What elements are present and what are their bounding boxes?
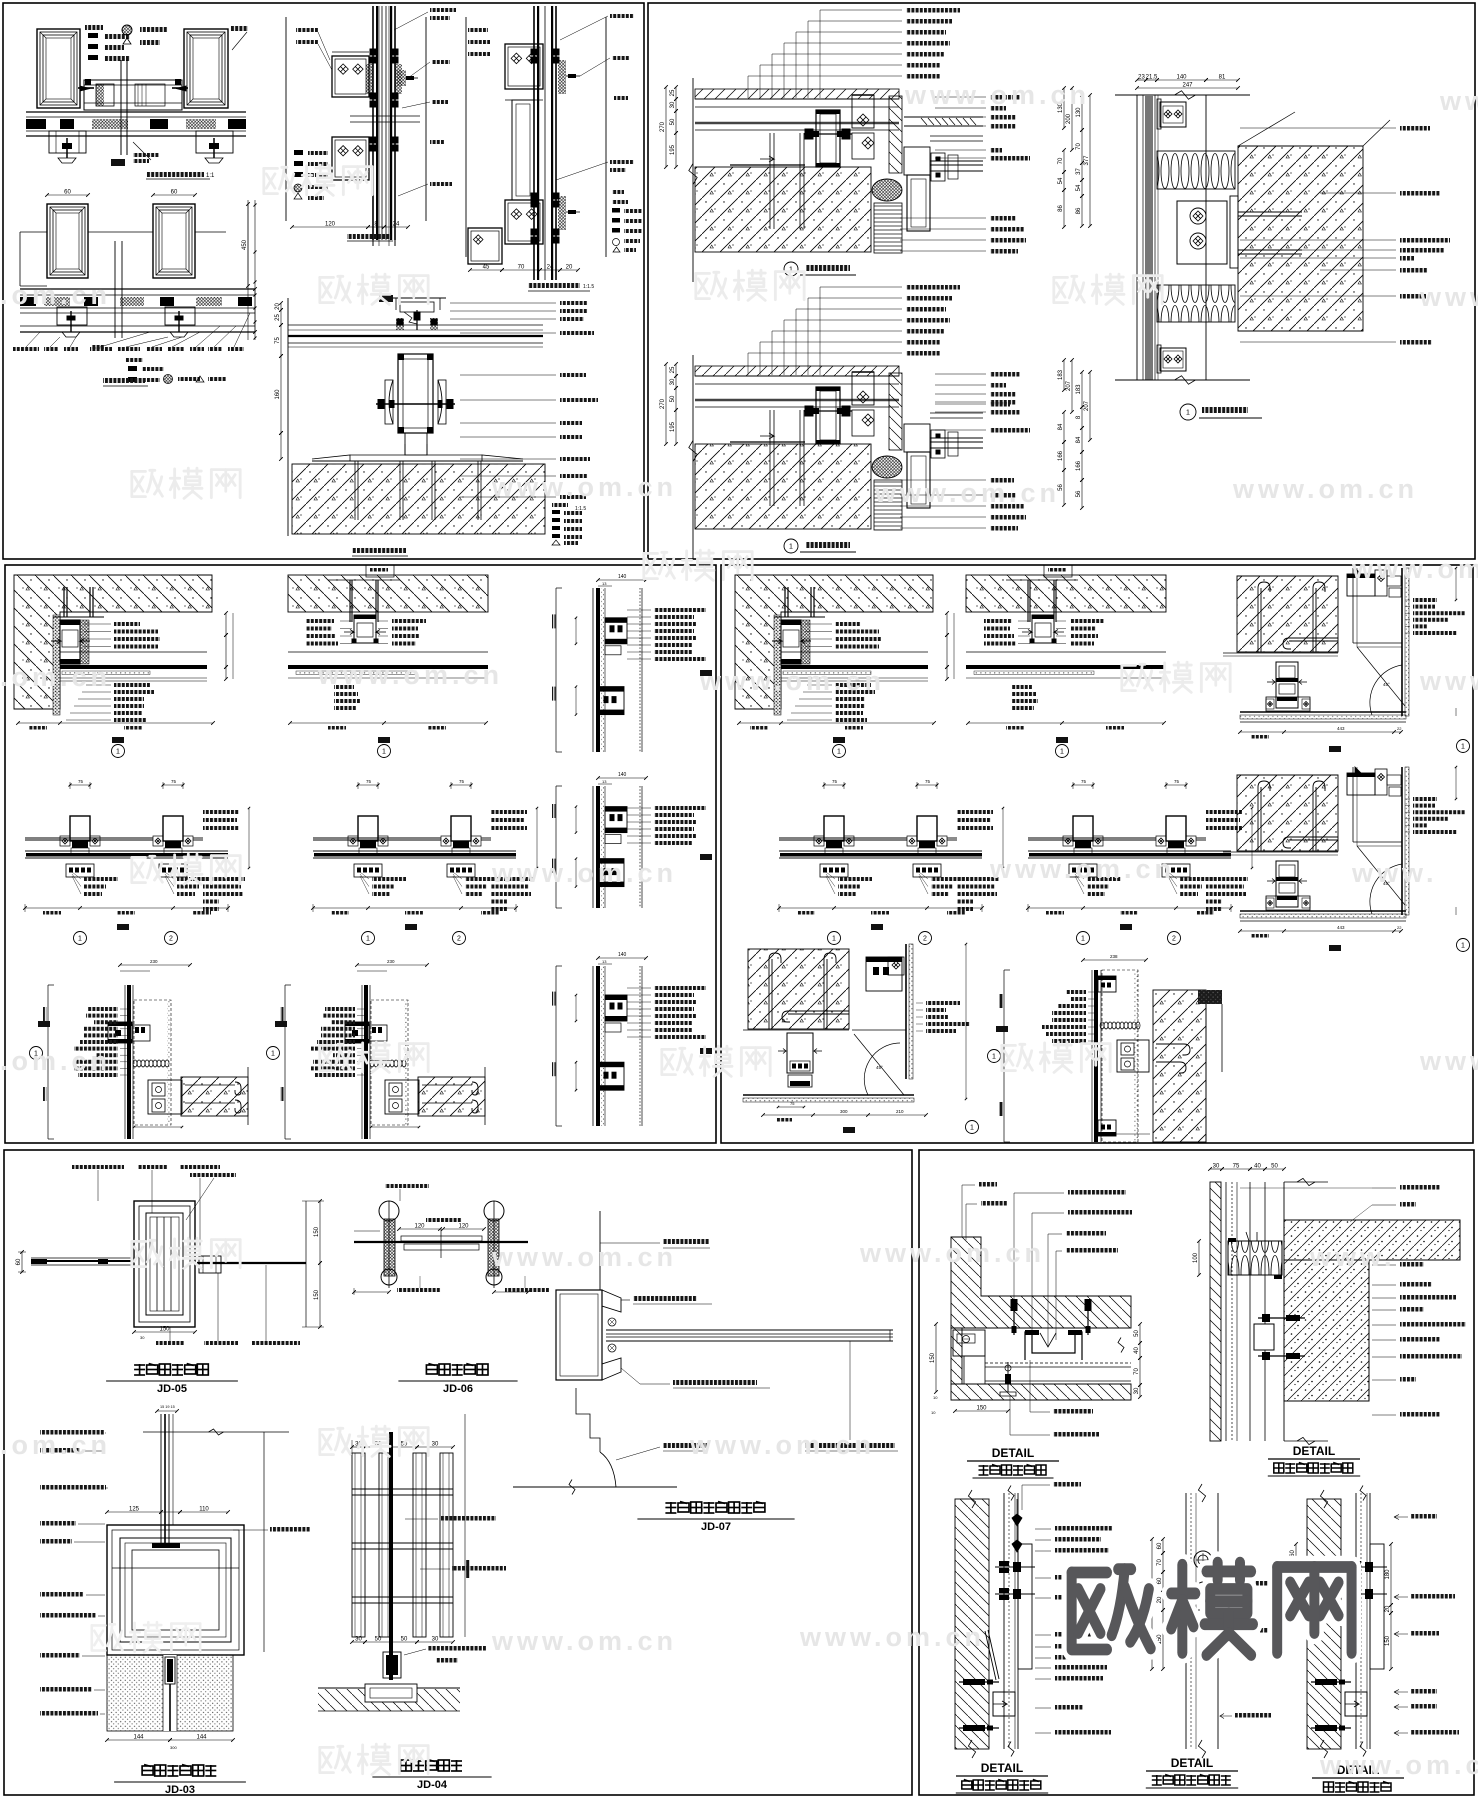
second bracket diamond: [852, 410, 874, 436]
panel border bottom-left sheet: [4, 1150, 912, 1795]
lower glass band with black seam: [313, 850, 516, 852]
stone clamp left BR-1: [953, 1330, 985, 1356]
svg-text:150: 150: [314, 1226, 320, 1237]
svg-text:1: 1: [789, 544, 793, 551]
break symbols BR-2: [1297, 1178, 1315, 1185]
upper cluster: [605, 618, 627, 644]
miter diagonal and arc: [1357, 846, 1405, 905]
left boundary line TL-E: [287, 298, 289, 536]
svg-text:50: 50: [375, 1637, 382, 1643]
mullion tube rect: [70, 816, 90, 841]
bottom bracket TR-3: [1160, 348, 1186, 371]
rail band of TL-B: [20, 288, 255, 290]
leader labels mid rows: [835, 622, 861, 626]
gasket cluster under mullion: [1075, 841, 1091, 848]
upper X-box TL-D: [505, 44, 543, 89]
dark stipple notch: [1198, 990, 1222, 1004]
pressure strip polygon JD-07: [602, 1290, 621, 1312]
left dims BR-1: [935, 1324, 937, 1392]
svg-text:140: 140: [618, 574, 627, 580]
bolt assembly window2 TL-B: [165, 307, 195, 325]
labels JD-07: [663, 1239, 709, 1244]
svg-text:50: 50: [1271, 1164, 1278, 1170]
right leader labels: [1413, 797, 1437, 801]
hatched ceiling slab wedge: [735, 575, 933, 709]
bottom glass checker band: [1240, 711, 1406, 713]
top sill assembly TL-E: [395, 298, 397, 310]
glass lines left right: [1028, 837, 1063, 839]
svg-text:30: 30: [1213, 1164, 1220, 1170]
svg-text:140: 140: [1176, 75, 1187, 81]
lower cluster dim: [575, 859, 577, 887]
right label JD-03: [270, 1527, 310, 1532]
anchor pins into concrete: [769, 410, 771, 506]
svg-text:166: 166: [1058, 450, 1064, 461]
vertical stone plate: [889, 373, 902, 450]
svg-text:www.om.cn: www.om.cn: [491, 1626, 677, 1656]
x-clip boxes: [1156, 836, 1166, 846]
door leaf line right JD-05: [197, 1262, 306, 1264]
svg-text:25: 25: [670, 89, 676, 96]
title JD-05: [134, 1364, 145, 1375]
svg-text:60: 60: [1290, 1550, 1296, 1557]
svg-text:84: 84: [1076, 436, 1082, 443]
frame opening dashed: [134, 1000, 171, 1125]
glass into frame JD-03: [160, 1525, 162, 1545]
wall return line: [247, 1067, 249, 1125]
small detail box top: [1044, 565, 1072, 577]
svg-text:60: 60: [171, 190, 178, 196]
svg-text:150: 150: [314, 1289, 320, 1300]
PVC + bolt right TL-D: [568, 74, 576, 78]
svg-text:1: 1: [116, 749, 120, 756]
side plates TL-E: [389, 380, 393, 424]
lower X-box TL-C: [332, 137, 369, 180]
leader labels mid rows: [114, 622, 140, 626]
small legend under TL-B: [125, 358, 143, 362]
anchor cluster upper: [108, 1022, 132, 1043]
stipple wall finish strip: [774, 615, 781, 715]
base tee TL-E: [405, 433, 427, 455]
lower glass band with black seam: [1028, 850, 1231, 852]
title circled number: [784, 262, 798, 276]
svg-text:22: 22: [1397, 925, 1402, 930]
bottom dim: [371, 1126, 419, 1128]
channel steel portal BR-1: [1025, 1332, 1082, 1360]
svg-text:75: 75: [925, 779, 931, 784]
svg-text:75: 75: [78, 779, 84, 784]
svg-text:www.om.cn: www.om.cn: [491, 472, 677, 502]
svg-text:75: 75: [459, 779, 465, 784]
bracket box: [1117, 1040, 1149, 1072]
frame box TL-D: [465, 17, 467, 257]
svg-text:70: 70: [518, 265, 525, 271]
svg-text:120: 120: [325, 222, 336, 228]
mullion arrows: [1267, 680, 1275, 685]
mullion plan 1 frame: [1073, 784, 1093, 786]
svg-text:183: 183: [1058, 369, 1064, 380]
panel border middle-left sheet: [5, 565, 716, 1143]
hook anchors in concrete: [235, 1082, 241, 1095]
bolt assembly below window1 TL-A: [49, 131, 86, 153]
assembly arrows: [51, 639, 61, 644]
svg-text:DETAIL: DETAIL: [992, 1446, 1034, 1460]
dashed joint BR-4: [1186, 1609, 1218, 1611]
svg-text:1: 1: [78, 936, 82, 943]
anchor bolts horizontal: [1311, 1681, 1351, 1683]
circled numbers: [1077, 932, 1090, 945]
label leader FC301 top right of TL-A: [232, 32, 247, 50]
svg-text:50: 50: [1134, 1330, 1140, 1337]
central mullion column TL-C: [372, 6, 374, 240]
bottom dim JD-03: [107, 1739, 170, 1741]
mullion plan 2 frame: [163, 784, 183, 786]
svg-text:443: 443: [1337, 925, 1345, 930]
mullion tube rect: [917, 816, 937, 841]
glass lines left right: [313, 837, 441, 839]
circled tag: [112, 737, 124, 743]
left bracket: [555, 966, 557, 1126]
svg-text:160: 160: [275, 389, 281, 400]
svg-text:30: 30: [670, 101, 676, 108]
svg-text:2: 2: [923, 936, 927, 943]
circled number left: [30, 1047, 43, 1060]
gasket X circles JD-07: [608, 1318, 616, 1326]
bottom connector box: [820, 864, 848, 877]
dashed board band BR-1: [985, 1362, 1131, 1364]
left dim stacks TR-3: [1063, 88, 1065, 128]
leader labels lower rows: [835, 683, 871, 687]
concrete wall block TR-3: [1238, 146, 1363, 331]
top dim bracket: [357, 964, 427, 966]
bottom connector with clips: [1266, 697, 1310, 711]
svg-text:45°: 45°: [1383, 682, 1390, 687]
svg-text:230: 230: [387, 959, 395, 964]
legend stack TL-E bottom right: [552, 503, 568, 507]
top bracket with diamonds TR-3: [1160, 102, 1186, 127]
fire insulation box BR-2: [1228, 1241, 1282, 1275]
svg-text:60: 60: [16, 1258, 22, 1265]
svg-text:20: 20: [1385, 1605, 1391, 1612]
side wall lines TL-B: [20, 231, 47, 233]
svg-text:45°: 45°: [876, 1065, 883, 1070]
right dim bracket: [248, 808, 250, 868]
fitting blocks at glass: [931, 430, 945, 458]
glass black column: [364, 985, 368, 1139]
svg-text:www.: www.: [1419, 1046, 1478, 1076]
lower cluster: [598, 859, 624, 887]
svg-text:JD-03: JD-03: [165, 1784, 195, 1796]
left bracket: [1003, 970, 1005, 1142]
svg-text:75: 75: [832, 779, 838, 784]
cross rails JD-04: [352, 1488, 453, 1490]
svg-text:207: 207: [1066, 380, 1072, 391]
mullion tube rect: [824, 816, 844, 841]
gasket cluster under mullion: [453, 841, 469, 848]
glass lines left right: [313, 837, 348, 839]
svg-text:2: 2: [457, 936, 461, 943]
upper cluster dim: [575, 807, 577, 833]
svg-text:www.om.cn: www.om.cn: [689, 1430, 875, 1460]
svg-text:166: 166: [1076, 460, 1082, 471]
mullion plan 1 frame: [824, 784, 844, 786]
leader labels left column: [88, 1007, 118, 1011]
svg-text:140: 140: [618, 952, 627, 958]
right dim stack between TR-1 TR-2: [1081, 95, 1083, 130]
hanger rods: [784, 587, 786, 617]
bottom connector box: [1069, 864, 1097, 877]
panel border middle-right sheet: [721, 565, 1473, 1143]
svg-text:81: 81: [1219, 75, 1226, 81]
svg-text:DETAIL: DETAIL: [1293, 1444, 1335, 1458]
glass lines left right: [1028, 837, 1156, 839]
glass lines left right: [779, 837, 814, 839]
anchor bolts vertical BR-1: [1013, 1299, 1015, 1335]
ceiling main runner black band: [781, 651, 928, 653]
leader labels below: [931, 877, 965, 881]
svg-text:75: 75: [171, 779, 177, 784]
gaskets on mullion TL-C: [370, 49, 377, 56]
bottom connector box: [66, 864, 94, 877]
upper cluster dim: [575, 618, 577, 644]
glass dotted line right: [639, 588, 641, 752]
svg-text:JD-05: JD-05: [157, 1383, 187, 1395]
leader labels below: [465, 877, 499, 881]
floor slab hatch band BR-2: [1284, 1220, 1460, 1260]
upper cluster dim: [575, 995, 577, 1021]
tag between: [1120, 924, 1132, 930]
edge trim assembly box: [781, 620, 801, 664]
title JD-06: [426, 1364, 437, 1375]
channel box lower: [1345, 1692, 1367, 1716]
bottom dim: [290, 722, 486, 724]
svg-text:37: 37: [1076, 168, 1082, 175]
dim line bottom TL-D: [470, 269, 502, 271]
inner corner lines: [1352, 767, 1354, 842]
gasket cluster under mullion: [919, 841, 935, 848]
runner band: [966, 651, 1166, 653]
legend stack TL-D right: [612, 200, 628, 204]
hatched slab band: [966, 575, 1166, 612]
svg-text:www.: www.: [1419, 666, 1478, 696]
foundation box JD-04: [365, 1684, 417, 1702]
right dimension stack TL-B: [247, 200, 249, 340]
svg-text:1: 1: [1461, 744, 1465, 751]
window frame 1 of detail TL-A: [37, 29, 80, 108]
leader labels right of TL-C: [430, 8, 456, 12]
bottom long dimension: [779, 907, 982, 909]
floor slab hatch band: [695, 366, 899, 376]
break gap TL-C: [350, 115, 420, 117]
bolt assembly below window2 TL-A: [196, 131, 233, 153]
svg-text:60: 60: [64, 190, 71, 196]
svg-text:54: 54: [1058, 177, 1064, 184]
bottom labels JD-05: [156, 1341, 184, 1345]
anchor pins into concrete: [769, 133, 771, 229]
bottom X-box TL-D small: [468, 228, 502, 264]
lower glass band with black seam: [1028, 850, 1231, 852]
anchor bolt horizontal: [804, 410, 852, 412]
glass unit going right: [930, 160, 983, 162]
svg-text:1: 1: [832, 936, 836, 943]
mullion hanging down: [1276, 662, 1298, 708]
right label rows plan pair: [491, 810, 527, 814]
bolt assembly window1 TL-B: [57, 307, 87, 325]
PVC blob TL-C: [397, 70, 406, 86]
svg-text:www.om.cn: www.om.cn: [491, 858, 677, 888]
wall return: [1205, 1004, 1207, 1142]
svg-text:75: 75: [790, 1101, 795, 1106]
svg-text:1: 1: [1186, 410, 1190, 417]
circled numbers: [362, 932, 375, 945]
svg-text:247: 247: [1182, 83, 1193, 89]
mullion plan 2 frame: [451, 784, 471, 786]
x-clip boxes: [1063, 836, 1073, 846]
svg-text:www.: www.: [1309, 1242, 1396, 1272]
bottom dim bracket: [1240, 731, 1401, 733]
lower glass band with black seam: [779, 850, 982, 852]
svg-text:25: 25: [670, 366, 676, 373]
anchor bolt clusters BR-2: [1258, 1317, 1305, 1319]
svg-text:60: 60: [1157, 1542, 1163, 1549]
tag between: [405, 924, 417, 930]
x-clip boxes: [814, 836, 824, 846]
stone L hatch vertical strip: [951, 1237, 1131, 1328]
bottom connector box: [447, 864, 475, 877]
glass black column: [1094, 970, 1098, 1142]
bottom connector box: [159, 864, 187, 877]
concrete block with hooks: [748, 949, 849, 1029]
ladder strip: [874, 203, 902, 253]
bolt clusters: [1347, 1566, 1387, 1568]
main vertical lines: [592, 786, 594, 908]
svg-text:300: 300: [840, 1109, 848, 1114]
glass lines left right: [779, 837, 907, 839]
break symbol right BR-1: [1118, 1338, 1124, 1353]
door frame big box JD-03: [107, 1525, 244, 1655]
svg-text:25: 25: [275, 314, 281, 321]
frame box TL-C: [285, 17, 287, 221]
svg-text:13: 13: [602, 779, 607, 784]
svg-text:20: 20: [1157, 1596, 1163, 1603]
top bracket box: [852, 95, 874, 128]
slab lines below: [695, 106, 899, 108]
top cluster: [1098, 976, 1116, 992]
x-clip boxes: [348, 836, 358, 846]
break line top right JD-03: [143, 1431, 289, 1433]
right dim edge: [1455, 568, 1457, 600]
svg-text:56: 56: [1076, 490, 1082, 497]
fitting blocks at glass: [931, 153, 945, 181]
lower cluster dim: [575, 687, 577, 715]
stipple wall finish strip: [53, 615, 60, 715]
labels right BR-4: [1238, 1581, 1278, 1586]
bottom connector box: [913, 864, 941, 877]
top dim bracket: [1083, 959, 1146, 961]
bolt circles BR-4: [1194, 1551, 1212, 1569]
white door gap in stipple: [163, 1655, 177, 1731]
svg-text:45: 45: [483, 265, 490, 271]
labels right BR-2: [1400, 1185, 1440, 1190]
leader labels below: [838, 877, 872, 881]
mullion arrows: [1267, 879, 1275, 884]
tag between: [871, 924, 883, 930]
tag: [700, 670, 712, 676]
bottom connector box: [354, 864, 382, 877]
svg-text:1: 1: [366, 936, 370, 943]
right label rows TR-1: [990, 95, 1020, 100]
tag and circle: [1329, 746, 1341, 752]
lower glass band with black seam: [25, 850, 228, 852]
right dims BR-1: [1139, 1324, 1141, 1343]
left wall hatch strip BR-2: [1210, 1182, 1221, 1441]
door leaf rects JD-06: [401, 1236, 482, 1241]
top dim JD-04: [352, 1446, 365, 1448]
svg-text:23: 23: [1138, 75, 1145, 81]
lower leader labels: [334, 685, 354, 689]
svg-text:144: 144: [196, 1735, 207, 1741]
svg-text:75: 75: [275, 337, 281, 344]
lower glass band with black seam: [779, 850, 982, 852]
svg-text:200: 200: [1066, 113, 1072, 124]
hanger rods: [349, 580, 351, 622]
hook anchors in concrete: [472, 1082, 478, 1095]
right dim bracket: [965, 944, 967, 1099]
svg-text:75: 75: [1174, 779, 1180, 784]
labels JD-06: [385, 1184, 429, 1188]
svg-text:30: 30: [140, 1335, 145, 1340]
bottom connector box: [1162, 864, 1190, 877]
svg-text:24: 24: [547, 265, 554, 271]
right vertical dim JD-04: [464, 1414, 466, 1637]
anchor bolts horizontal: [959, 1681, 999, 1683]
mullion column lines: [1355, 1493, 1357, 1749]
glass line TR-3: [1205, 95, 1207, 380]
mullion down: [787, 1033, 813, 1073]
bottom connector with clips: [1266, 896, 1310, 910]
right leader labels: [1070, 619, 1104, 623]
svg-text:84: 84: [1058, 423, 1064, 430]
right glass checker band vertical: [1401, 767, 1403, 915]
bolt clusters: [995, 1566, 1035, 1568]
svg-text:30: 30: [432, 1637, 439, 1643]
svg-text:2: 2: [169, 936, 173, 943]
wall return line: [484, 1067, 486, 1125]
anchor bars TR-3: [1238, 211, 1302, 213]
mullion tube rect: [163, 816, 183, 841]
top labels BR-1: [979, 1182, 997, 1187]
svg-text:144: 144: [133, 1735, 144, 1741]
mullion shoe: [788, 1075, 812, 1087]
svg-text:150: 150: [976, 1406, 987, 1412]
lower glass band with black seam: [313, 850, 516, 852]
bracket to wall: [385, 1080, 419, 1114]
left dim stack: [675, 364, 677, 376]
svg-text:100: 100: [1193, 1252, 1199, 1263]
assembly arrows: [772, 639, 782, 644]
leader text column top of TR-1: [906, 8, 960, 13]
concrete block right: [181, 1077, 248, 1116]
svg-text:1: 1: [271, 1051, 275, 1058]
labels right BR-3: [1053, 1482, 1081, 1487]
tag: [700, 1048, 712, 1054]
mullion box TL-E: [398, 354, 433, 433]
top dim bracket: [598, 579, 646, 581]
lower X-box TL-D: [505, 200, 543, 244]
tag and circle: [378, 737, 390, 743]
bottom labels BR-1: [1053, 1409, 1093, 1414]
svg-text:75: 75: [1081, 779, 1087, 784]
